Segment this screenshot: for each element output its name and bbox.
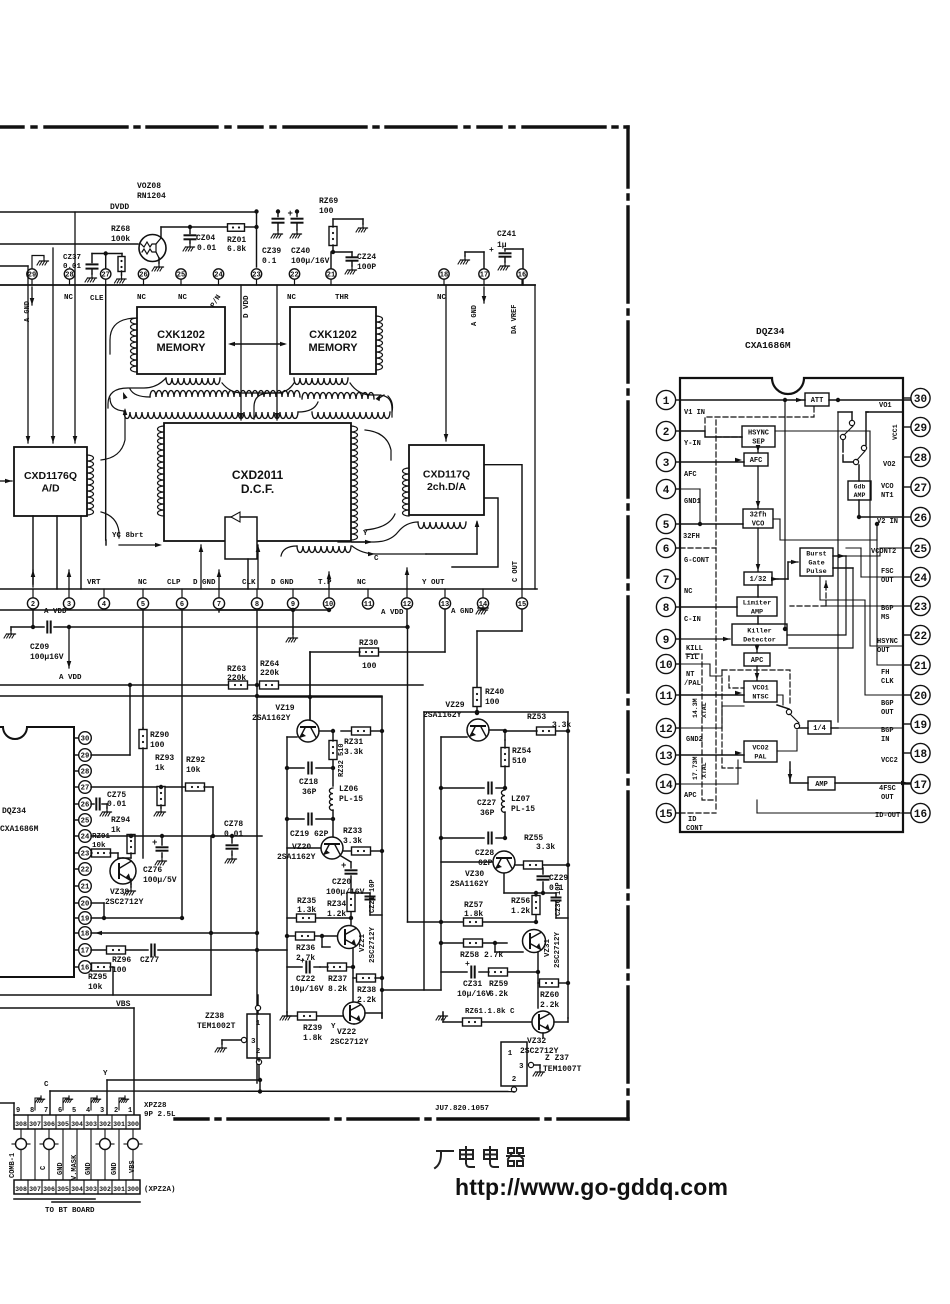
svg-text:15: 15 [518, 601, 526, 609]
svg-text:VZ31: VZ31 [544, 938, 552, 957]
svg-text:MEMORY: MEMORY [308, 342, 358, 354]
svg-text:8.2k: 8.2k [328, 985, 347, 994]
svg-text:AFC: AFC [684, 471, 697, 479]
svg-text:2SC2712Y: 2SC2712Y [105, 898, 144, 907]
pin 23 left IC [74, 852, 79, 854]
svg-text:GND: GND [111, 1162, 119, 1175]
svg-text:21: 21 [914, 661, 928, 673]
svg-text:AMP: AMP [751, 608, 763, 616]
wire Killer to APC [756, 645, 758, 652]
svg-text:27: 27 [81, 785, 90, 793]
pin 4 bottom row [103, 589, 105, 598]
svg-text:CZ20: CZ20 [332, 878, 351, 887]
svg-text:100µ/16V: 100µ/16V [291, 257, 330, 266]
resistor RZ90 [142, 728, 144, 730]
svg-text:CLK: CLK [881, 678, 894, 686]
wire pin12 to CZ09 rail [406, 610, 408, 627]
svg-text:2SC2712Y: 2SC2712Y [330, 1038, 369, 1047]
pin 21 top row [330, 279, 332, 285]
svg-text:3.3k: 3.3k [536, 843, 555, 852]
svg-text:RZ38: RZ38 [357, 986, 376, 995]
svg-text:CXA1686M: CXA1686M [0, 825, 39, 834]
pin 5 right IC [676, 523, 681, 525]
svg-text:4: 4 [86, 1107, 90, 1115]
wire riser into D/A top [445, 285, 447, 441]
svg-text:Detector: Detector [743, 636, 776, 644]
svg-text:0.1: 0.1 [262, 257, 277, 266]
svg-text:305: 305 [57, 1121, 69, 1128]
svg-text:7: 7 [44, 1107, 48, 1115]
svg-text:RZ95: RZ95 [88, 973, 107, 982]
svg-text:302: 302 [99, 1121, 111, 1128]
svg-text:V2 IN: V2 IN [877, 518, 898, 526]
svg-text:OUT: OUT [881, 577, 894, 585]
svg-text:C: C [44, 1081, 49, 1089]
svg-text:LZ06: LZ06 [339, 785, 358, 794]
svg-text:23: 23 [252, 272, 260, 280]
svg-text:Pulse: Pulse [806, 568, 826, 576]
resistor RZ30 [360, 648, 379, 656]
svg-text:VCO: VCO [881, 483, 894, 491]
svg-text:RZ61.1.8k: RZ61.1.8k [465, 1008, 506, 1016]
svg-text:19: 19 [914, 720, 927, 732]
svg-text:8: 8 [255, 601, 259, 609]
wire VZ19 left rail [286, 737, 288, 1012]
pin 29 right IC [903, 426, 911, 428]
wire 1/32 to Limiter [757, 585, 759, 597]
svg-text:302: 302 [99, 1186, 111, 1193]
svg-text:15: 15 [659, 809, 673, 821]
wire pin4 stub [680, 488, 700, 490]
svg-text:100P: 100P [357, 263, 376, 272]
svg-text:THR: THR [335, 294, 349, 302]
svg-text:+: + [341, 861, 346, 871]
svg-text:8: 8 [30, 1107, 34, 1115]
wire dashed NT/PAL select [722, 670, 790, 706]
svg-text:29: 29 [914, 423, 927, 435]
pin 27 top row [105, 279, 107, 285]
pin 21 right IC [903, 664, 911, 666]
svg-text:301: 301 [113, 1121, 125, 1128]
svg-text:6db: 6db [854, 484, 866, 491]
svg-text:NTSC: NTSC [752, 693, 768, 701]
svg-text:FSC: FSC [881, 568, 894, 576]
svg-text:KILL: KILL [686, 645, 703, 653]
svg-text:Y-IN: Y-IN [684, 440, 701, 448]
pin 17 right IC [903, 783, 911, 785]
IC CXK1202 memory right [290, 307, 376, 374]
pin 6 bottom row [181, 589, 183, 598]
svg-text:16: 16 [518, 272, 526, 280]
block 1/4 [808, 721, 831, 734]
wire APC to VCO1 [756, 666, 758, 680]
capacitor CZ04 [189, 227, 191, 234]
bus coil bottom of right memory [294, 378, 348, 385]
svg-text:NC: NC [357, 579, 367, 587]
svg-text:1.8k: 1.8k [464, 910, 483, 919]
svg-text:5: 5 [141, 601, 145, 609]
svg-text:VBS: VBS [129, 1160, 137, 1173]
pin 20 right IC [903, 694, 911, 696]
wire dashed to ATT [705, 406, 814, 431]
svg-text:1/32: 1/32 [750, 576, 767, 584]
wire bottom rail C [50, 1090, 514, 1093]
wire VCO2 right [777, 730, 797, 751]
wire A/D bottom to pin row [32, 516, 34, 584]
svg-text:26: 26 [914, 513, 927, 525]
IC CXD117Q D/A [409, 445, 484, 515]
svg-text:12: 12 [403, 601, 411, 609]
capacitor CZ77 [151, 945, 154, 956]
resistor RZ57 [408, 921, 465, 923]
pin 14 right IC [676, 783, 681, 785]
arrow pin12 [406, 568, 408, 589]
resistor RZ59 [489, 968, 508, 976]
pin 19 left IC [74, 917, 79, 919]
block 6dB AMP [848, 481, 871, 500]
svg-text:RZ92: RZ92 [186, 756, 205, 765]
svg-text:RZ93: RZ93 [155, 754, 174, 763]
block HSYNC SEP [742, 426, 775, 447]
svg-text:RN1204: RN1204 [137, 192, 166, 201]
svg-text:OUT: OUT [881, 794, 894, 802]
svg-text:0.01: 0.01 [197, 244, 216, 253]
wire THR riser into DCF [276, 285, 278, 420]
pin 23 right IC [903, 605, 911, 607]
pin 16 top row [521, 279, 523, 285]
pin 12 right IC [676, 727, 681, 729]
wire RZ30 riser down to VZ19 [309, 652, 311, 719]
svg-text:A VDD: A VDD [59, 674, 82, 682]
svg-text:3: 3 [663, 458, 670, 470]
svg-text:A GND: A GND [471, 305, 479, 326]
svg-text:RZ37: RZ37 [328, 975, 347, 984]
svg-text:23: 23 [914, 602, 928, 614]
wire VZ21 base jog [321, 936, 323, 947]
block VCO2 PAL [744, 741, 777, 762]
svg-text:CZ04: CZ04 [196, 234, 215, 243]
svg-text:CZ31: CZ31 [463, 980, 482, 989]
pin 2 bottom row [32, 589, 34, 598]
svg-text:16: 16 [81, 965, 90, 973]
svg-text:100k: 100k [111, 235, 130, 244]
wire D/A right to pin15 riser [485, 465, 522, 589]
svg-text:3.3k: 3.3k [552, 721, 571, 730]
svg-text:10µ/16V: 10µ/16V [457, 990, 491, 999]
svg-text:AFC: AFC [750, 457, 763, 465]
wire pin8 riser down [256, 610, 258, 1083]
wire pin29 to top rail [91, 754, 130, 756]
svg-text:3: 3 [519, 1063, 524, 1071]
svg-text:A GND: A GND [451, 608, 474, 616]
svg-text:2SA1162Y: 2SA1162Y [252, 714, 291, 723]
wire BGP out riser [820, 576, 865, 600]
svg-text:9: 9 [16, 1107, 20, 1115]
pin 22 left IC [74, 868, 79, 870]
svg-text:CZ28: CZ28 [475, 849, 494, 858]
svg-text:22: 22 [914, 631, 927, 643]
capacitor CZ22 [287, 966, 302, 968]
svg-text:CXA1686M: CXA1686M [745, 340, 791, 351]
transistor VZ38 [110, 858, 136, 884]
svg-text:28: 28 [81, 769, 90, 777]
wire pin15 C OUT to RZ40 [521, 610, 523, 631]
wire ZZ38 top to pin1 [257, 1011, 259, 1014]
pin 17 top row [483, 279, 485, 285]
svg-text:11: 11 [659, 691, 673, 703]
svg-text:C: C [374, 555, 379, 563]
svg-text:RZ31: RZ31 [344, 738, 363, 747]
wire C into D/A bottom [426, 553, 477, 555]
wire pin13 Y OUT to RZ30 [444, 610, 446, 652]
capacitor CZ40 [296, 212, 298, 217]
svg-text:CZ39: CZ39 [262, 247, 281, 256]
pin 22 top row [294, 279, 296, 285]
svg-text:100µ16V: 100µ16V [30, 653, 64, 662]
transistor VZ29 [467, 719, 489, 741]
svg-text:32fh: 32fh [750, 511, 767, 519]
svg-text:CLP: CLP [167, 579, 181, 587]
svg-text:NC: NC [287, 294, 297, 302]
svg-text:NC: NC [137, 294, 147, 302]
wire top pin row [0, 284, 535, 286]
svg-text:6.8k: 6.8k [227, 245, 246, 254]
svg-text:3.3k: 3.3k [343, 837, 362, 846]
transistor VZ21 [338, 926, 361, 949]
svg-text:PL-15: PL-15 [511, 805, 535, 814]
svg-text:13: 13 [659, 751, 673, 763]
svg-text:25: 25 [177, 272, 185, 280]
wire left feed [0, 243, 138, 245]
svg-text:RZ90: RZ90 [150, 731, 169, 740]
wire right riser from top row [534, 285, 536, 589]
svg-text:5: 5 [663, 520, 670, 532]
wire bottom rail Y [107, 1079, 260, 1081]
svg-text:220k: 220k [227, 674, 246, 683]
svg-text:RZ64: RZ64 [260, 660, 279, 669]
svg-text:32FH: 32FH [683, 533, 700, 541]
resistor RZ36 [287, 935, 296, 937]
wire rail to VZ29 area [382, 989, 441, 991]
IC CXD2011 DCF [164, 423, 351, 541]
wire VZ19 top feed [309, 652, 311, 719]
svg-text:http://www.go-gddq.com: http://www.go-gddq.com [455, 1174, 728, 1200]
capacitor CZ29 [542, 868, 544, 874]
pin 14 bottom row [482, 589, 484, 598]
svg-text:307: 307 [29, 1121, 41, 1128]
svg-text:CLK: CLK [242, 579, 256, 587]
svg-text:CZ21 10P: CZ21 10P [369, 879, 377, 913]
svg-text:3: 3 [100, 1107, 104, 1115]
wire DVDD rail [0, 211, 257, 213]
svg-text:A VDD: A VDD [381, 609, 404, 617]
svg-text:CZ30 10P: CZ30 10P [555, 882, 563, 916]
resistor RZ53 [537, 727, 556, 735]
resistor RZ01 [228, 224, 245, 232]
svg-text:C: C [40, 1166, 48, 1170]
svg-text:304: 304 [71, 1186, 83, 1193]
svg-text:27: 27 [101, 272, 109, 280]
wire pin20 jog [91, 902, 104, 904]
svg-text:301: 301 [113, 1186, 125, 1193]
svg-text:+: + [152, 838, 157, 848]
IC DQZ34 CXA1686M left [0, 727, 74, 977]
wire VBS rail [0, 994, 211, 996]
pin 7 bottom row [218, 589, 220, 598]
IC CXK1202 memory left [137, 307, 225, 374]
wire pin21 riser [330, 252, 332, 269]
pin 2 right IC [676, 430, 681, 432]
pin 29 left IC [74, 754, 79, 756]
ground right of RZ69 [356, 224, 368, 232]
pin 13 right IC [676, 754, 681, 756]
wire AMP out to pin17 [835, 782, 910, 784]
svg-text:RZ39: RZ39 [303, 1024, 322, 1033]
svg-text:1/4: 1/4 [813, 725, 826, 733]
svg-text:1: 1 [256, 1020, 261, 1028]
svg-text:6: 6 [58, 1107, 62, 1115]
svg-text:VZ29: VZ29 [445, 701, 464, 710]
wire dashed control bus vertical [715, 420, 717, 810]
pin 12 bottom row [406, 589, 408, 598]
resistor RZ31 [341, 730, 352, 732]
resistor RZ37 [328, 963, 347, 971]
svg-text:RZ33: RZ33 [343, 827, 362, 836]
svg-text:17: 17 [81, 948, 90, 956]
svg-text:Y: Y [363, 530, 368, 538]
wire right inner verticals [837, 412, 839, 722]
wire BGP MS [826, 605, 903, 607]
transistor VZ30 [493, 851, 515, 873]
svg-text:NC: NC [684, 588, 692, 596]
svg-text:306: 306 [43, 1121, 55, 1128]
pin 30 left IC [74, 737, 79, 739]
pin 24 top row [218, 279, 220, 285]
svg-text:+: + [465, 960, 470, 969]
svg-text:Burst: Burst [806, 551, 826, 559]
svg-text:9P 2.5L: 9P 2.5L [144, 1111, 176, 1119]
wire CLE riser down [105, 285, 107, 540]
svg-text:VZ21: VZ21 [359, 933, 367, 952]
svg-text:RZ57: RZ57 [464, 901, 483, 910]
svg-text:7: 7 [663, 575, 670, 587]
svg-text:27: 27 [914, 483, 927, 495]
svg-text:DVDD: DVDD [110, 203, 129, 212]
svg-text:C: C [510, 1008, 515, 1016]
svg-text:RZ68: RZ68 [111, 225, 130, 234]
transistor VZ22 [343, 1002, 365, 1024]
text guangdian brand glyphs [435, 1147, 524, 1168]
svg-text:NT1: NT1 [881, 492, 894, 500]
svg-text:D GND: D GND [271, 579, 294, 587]
svg-text:PAL: PAL [754, 753, 766, 761]
svg-text:Y: Y [103, 1070, 108, 1078]
svg-text:300: 300 [127, 1121, 139, 1128]
svg-text:36P: 36P [480, 809, 495, 818]
svg-text:10k: 10k [88, 983, 103, 992]
bus coil D/A left edge [403, 468, 409, 516]
svg-text:Limiter: Limiter [743, 599, 772, 607]
svg-text:CZ22: CZ22 [296, 975, 315, 984]
jack circles [16, 1139, 27, 1150]
svg-text:RZ56: RZ56 [511, 897, 530, 906]
svg-text:303: 303 [85, 1121, 97, 1128]
svg-text:RZ36: RZ36 [296, 944, 315, 953]
resistor RZ63 [229, 681, 248, 689]
svg-text:Y OUT: Y OUT [422, 579, 445, 587]
wire pin6 riser down [181, 610, 183, 918]
svg-text:CZ29: CZ29 [549, 874, 568, 883]
svg-text:4: 4 [663, 485, 670, 497]
svg-text:RZ01: RZ01 [227, 236, 246, 245]
svg-text:2SA1162Y: 2SA1162Y [450, 880, 489, 889]
svg-text:308: 308 [15, 1121, 27, 1128]
connector XPZ28 top row [14, 1115, 140, 1129]
svg-text:CZ77: CZ77 [140, 956, 159, 965]
wire memory interconnect arrows [231, 343, 284, 345]
block VCO1 NTSC [744, 681, 777, 702]
svg-text:OUT: OUT [877, 647, 890, 655]
svg-text:RZ96: RZ96 [112, 956, 131, 965]
svg-text:VCONT2: VCONT2 [871, 548, 896, 556]
wire ATT to pin30 [829, 399, 910, 401]
pin 18 right IC [903, 752, 911, 754]
bus loop DCF to D/A [365, 430, 391, 460]
transistor VZ20 [321, 837, 343, 859]
svg-text:OUT: OUT [881, 709, 894, 717]
wire pin18 long rail [91, 932, 211, 934]
svg-text:NC: NC [64, 294, 74, 302]
wire pin5 to VCO [680, 523, 743, 525]
svg-text:RZ30: RZ30 [359, 639, 378, 648]
wire 1/4 to BGP IN [831, 727, 903, 729]
svg-text:JU7.820.1057: JU7.820.1057 [435, 1105, 489, 1113]
pin 17 left IC [74, 949, 79, 951]
svg-text:APC: APC [684, 792, 697, 800]
wire DVDD riser into DCF [240, 285, 242, 420]
pin 25 left IC [74, 819, 79, 821]
pin 26 right IC [903, 516, 911, 518]
svg-text:17.73M: 17.73M [692, 756, 699, 780]
wire killer feedback [785, 628, 787, 630]
svg-text:V.MASK: V.MASK [71, 1154, 79, 1180]
svg-text:29: 29 [81, 753, 90, 761]
label A GND pin29 [31, 287, 33, 305]
pin 9 bottom row [292, 589, 294, 598]
svg-text:14: 14 [659, 780, 673, 792]
pin 29 top row [31, 279, 33, 285]
svg-text:AMP: AMP [815, 781, 828, 789]
svg-text:21: 21 [327, 272, 335, 280]
svg-text:1.8k: 1.8k [303, 1034, 322, 1043]
pin 10 bottom row [328, 589, 330, 598]
svg-text:CZ18: CZ18 [299, 778, 318, 787]
connector XPZ2A bottom row [14, 1180, 140, 1194]
pin 3 right IC [676, 461, 681, 463]
svg-text:7: 7 [217, 601, 221, 609]
wire dashed kill [686, 654, 716, 800]
pin 27 left IC [74, 786, 79, 788]
pin 28 right IC [903, 456, 911, 458]
switch upper 2 [853, 459, 858, 464]
wire AFC to VCO [757, 466, 759, 508]
bus coil bottom of left memory [166, 378, 220, 385]
svg-text:100: 100 [112, 966, 127, 975]
svg-text:24: 24 [214, 272, 222, 280]
block AFC [744, 453, 768, 466]
ground by pin17 [483, 252, 485, 269]
pin 11 right IC [676, 694, 681, 696]
